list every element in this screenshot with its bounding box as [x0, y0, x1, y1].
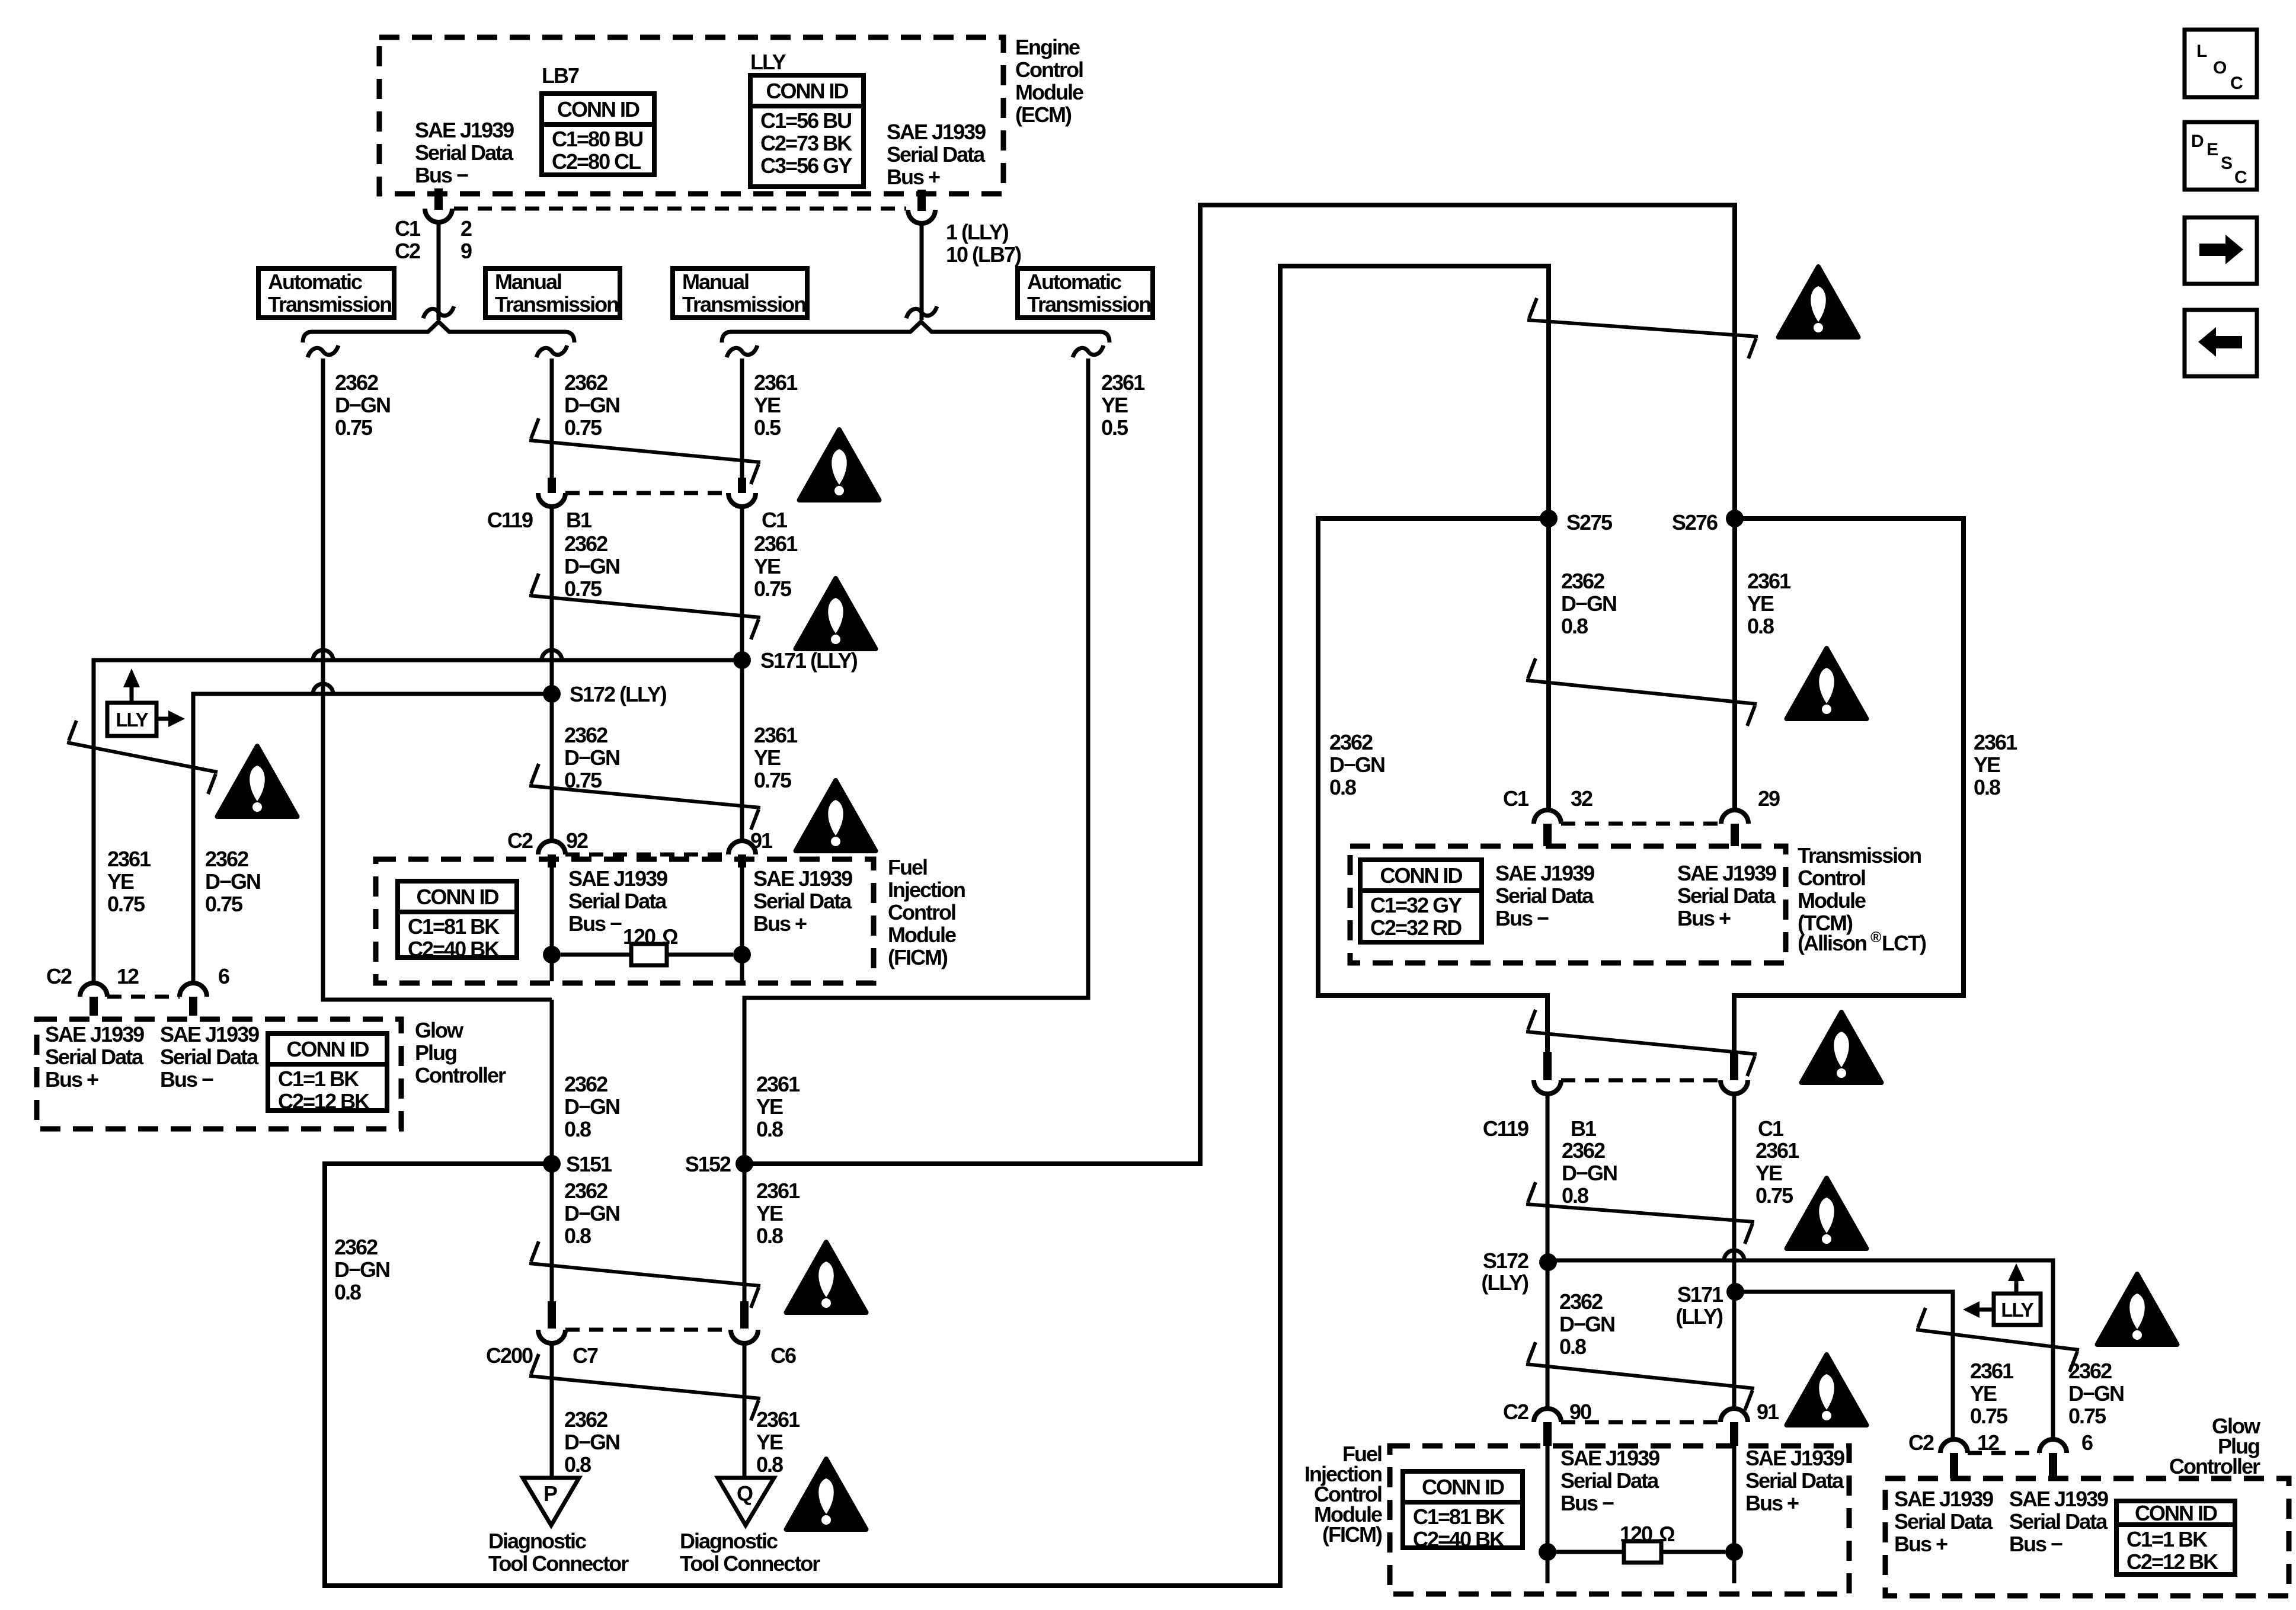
svg-text:C200: C200	[486, 1343, 533, 1368]
svg-text:C2=80 CL: C2=80 CL	[552, 149, 641, 174]
svg-text:YE: YE	[1970, 1381, 1997, 1406]
callout box Automatic Transmission right	[1018, 268, 1153, 318]
wire label 2361 YE 0.5 (auto)	[1101, 370, 1145, 440]
svg-text:Serial Data: Serial Data	[1677, 884, 1776, 908]
wire label 2361 YE 0.8 to Q	[756, 1407, 800, 1477]
wire label 2362 D-GN 0.8	[564, 1072, 619, 1141]
svg-text:0.8: 0.8	[1329, 775, 1356, 799]
svg-text:C2=12 BK: C2=12 BK	[278, 1089, 370, 1113]
svg-text:®: ®	[1870, 929, 1882, 946]
twisted pair symbol left	[67, 721, 218, 794]
svg-text:D−GN: D−GN	[334, 1257, 389, 1282]
label LLY	[750, 50, 786, 74]
connector C119/B1 cup	[538, 493, 565, 507]
svg-text:Serial Data: Serial Data	[1560, 1468, 1659, 1493]
wire label 2361 YE 0.8	[756, 1072, 800, 1141]
svg-text:Bus +: Bus +	[753, 911, 807, 936]
svg-text:Automatic: Automatic	[268, 270, 362, 294]
svg-text:(FICM): (FICM)	[888, 945, 948, 969]
svg-text:120: 120	[1620, 1522, 1652, 1546]
connector C119/B1 right cup	[1534, 1080, 1561, 1094]
glow plug connector face dashed	[107, 995, 180, 999]
warning triangle	[218, 746, 298, 817]
svg-text:Serial Data: Serial Data	[1745, 1468, 1844, 1493]
svg-text:C1=56 BU: C1=56 BU	[760, 108, 851, 133]
svg-text:2362: 2362	[1329, 730, 1373, 754]
splice S275	[1540, 510, 1613, 534]
svg-text:0.8: 0.8	[1562, 1183, 1588, 1208]
svg-text:2361: 2361	[754, 370, 798, 395]
wire option squiggle	[423, 306, 454, 318]
CONN ID table glow plug right	[2116, 1501, 2235, 1574]
splice S171 right	[1675, 1282, 1744, 1329]
svg-text:Bus −: Bus −	[2009, 1532, 2062, 1556]
wire ECM bus+ drop	[920, 223, 924, 320]
label C6	[770, 1343, 796, 1368]
wire label 2362 D-GN 0.75 mid	[564, 532, 619, 601]
svg-text:2361: 2361	[107, 847, 151, 871]
svg-text:0.8: 0.8	[564, 1117, 591, 1141]
splice dot right resistor	[733, 946, 751, 964]
svg-text:Bus −: Bus −	[160, 1067, 213, 1092]
svg-text:Bus +: Bus +	[1745, 1491, 1799, 1515]
svg-text:LB7: LB7	[542, 63, 579, 88]
wire S275 left branch	[1318, 518, 1549, 1052]
svg-text:2362: 2362	[1559, 1289, 1603, 1314]
warning triangle	[1787, 1355, 1867, 1425]
FICM left internal bus+ wire	[740, 868, 744, 981]
svg-text:C2: C2	[46, 964, 72, 988]
wire hop	[313, 684, 333, 694]
CONN ID table LLY	[750, 75, 864, 187]
splice S172	[543, 682, 667, 706]
fuel injection control module left dashed box	[376, 859, 874, 983]
twisted pair symbol above TCM	[1526, 658, 1757, 726]
connector C119 stub	[548, 478, 556, 493]
svg-text:Module: Module	[888, 923, 956, 947]
connector stub 6 right	[2049, 1453, 2057, 1478]
TCM pin label bus minus	[1495, 861, 1594, 930]
engine control module ECM dashed box	[379, 37, 1003, 194]
svg-text:Serial Data: Serial Data	[2009, 1509, 2108, 1534]
svg-text:2361: 2361	[754, 723, 798, 747]
wire label 2362 D-GN 0.8 to P	[564, 1407, 619, 1477]
FICM left pin label bus minus	[568, 866, 667, 936]
label C119	[487, 508, 533, 532]
svg-text:Serial Data: Serial Data	[1894, 1509, 1993, 1534]
off-page connector P triangle	[523, 1478, 579, 1525]
svg-text:S152: S152	[685, 1152, 731, 1176]
splice S276	[1672, 510, 1744, 534]
connector C1 right cup	[1721, 1080, 1748, 1094]
connector stub 91	[738, 854, 746, 868]
wire label 2362 D-GN 0.8 left loop	[1329, 730, 1384, 799]
svg-text:C1: C1	[1503, 786, 1529, 811]
connector C2-90 cup	[1534, 1409, 1561, 1422]
label 29	[1758, 786, 1780, 811]
warning triangle	[796, 780, 876, 851]
wire to P triangle	[550, 1343, 554, 1478]
svg-text:C2: C2	[1503, 1400, 1528, 1424]
svg-text:2361: 2361	[1747, 569, 1791, 593]
svg-text:(Allison: (Allison	[1798, 931, 1866, 955]
splice dot left resistor	[543, 946, 561, 964]
svg-text:(ECM): (ECM)	[1015, 103, 1072, 127]
label C1 right	[1758, 1116, 1784, 1141]
label C1 C2	[395, 216, 421, 263]
FICM right connector face dashed	[1561, 1420, 1721, 1425]
wire S171 right to glow plug	[1735, 1292, 1953, 1440]
label LB7	[542, 63, 579, 88]
GPC right name	[2169, 1414, 2261, 1478]
wire S171 branch to glow plug	[94, 660, 742, 984]
svg-text:YE: YE	[754, 745, 781, 770]
svg-text:CONN ID: CONN ID	[417, 885, 499, 909]
warning triangle	[800, 430, 880, 500]
svg-text:D−GN: D−GN	[205, 869, 260, 894]
label diagnostic tool connector Q	[680, 1529, 820, 1576]
svg-text:Bus −: Bus −	[1495, 906, 1549, 930]
FICM left name	[888, 855, 965, 969]
svg-text:D−GN: D−GN	[1559, 1312, 1614, 1336]
FICM right pin label bus plus	[1745, 1446, 1844, 1515]
wire 2362 manual mid	[550, 506, 554, 841]
svg-text:Module: Module	[1798, 888, 1866, 913]
transmission control module dashed box	[1350, 846, 1786, 963]
svg-text:0.75: 0.75	[754, 768, 792, 792]
svg-text:C1=1 BK: C1=1 BK	[278, 1067, 359, 1091]
svg-text:1 (LLY): 1 (LLY)	[946, 220, 1009, 244]
wire label 2361 YE 0.75 mid	[754, 532, 798, 601]
svg-text:Fuel: Fuel	[888, 855, 927, 879]
svg-text:C1=81 BK: C1=81 BK	[1413, 1505, 1505, 1529]
svg-text:Module: Module	[1015, 80, 1083, 104]
connector stub 90	[1543, 1422, 1552, 1446]
svg-text:S172: S172	[1483, 1249, 1528, 1273]
svg-text:CONN ID: CONN ID	[1422, 1475, 1504, 1499]
svg-text:0.8: 0.8	[756, 1224, 783, 1248]
wire squiggle auto-right	[1073, 345, 1104, 357]
svg-text:0.8: 0.8	[334, 1280, 361, 1304]
warning triangle	[786, 1242, 866, 1313]
warning triangle	[1787, 1178, 1867, 1249]
svg-text:2361: 2361	[1755, 1138, 1799, 1163]
svg-text:SAE J1939: SAE J1939	[2009, 1487, 2108, 1511]
svg-text:C2=73 BK: C2=73 BK	[760, 131, 852, 155]
legend box DESC	[2185, 122, 2257, 190]
svg-text:D−GN: D−GN	[564, 554, 619, 578]
svg-text:C1=81 BK: C1=81 BK	[408, 914, 500, 939]
svg-text:CONN ID: CONN ID	[2135, 1501, 2217, 1525]
FICM connector face dashed	[565, 853, 728, 857]
label C2	[507, 828, 533, 853]
connector 29 cup TCM	[1721, 810, 1748, 824]
svg-text:SAE J1939: SAE J1939	[160, 1022, 259, 1046]
label C200	[486, 1343, 533, 1368]
svg-text:C1: C1	[395, 216, 421, 241]
svg-text:C1: C1	[762, 508, 788, 532]
twisted pair symbol glow right	[1916, 1308, 2079, 1372]
svg-text:C2=40 BK: C2=40 BK	[1413, 1527, 1505, 1551]
svg-text:Diagnostic: Diagnostic	[680, 1529, 778, 1553]
wire ECM bus- drop	[437, 222, 441, 320]
svg-text:C119: C119	[1483, 1116, 1528, 1141]
svg-text:0.75: 0.75	[564, 415, 602, 440]
svg-text:Manual: Manual	[495, 270, 561, 294]
svg-text:2361: 2361	[754, 532, 798, 556]
svg-text:S: S	[2221, 153, 2232, 173]
svg-text:Transmission: Transmission	[268, 292, 391, 316]
svg-text:0.8: 0.8	[756, 1117, 783, 1141]
wire label 2361 YE 0.8 right loop	[1974, 730, 2017, 799]
svg-text:SAE J1939: SAE J1939	[45, 1022, 144, 1046]
wire manual bus- below FICM	[550, 1000, 554, 1301]
svg-text:Q: Q	[737, 1481, 753, 1506]
wire option squiggle	[906, 306, 937, 318]
label C7	[573, 1343, 598, 1368]
svg-text:C2=40 BK: C2=40 BK	[408, 937, 500, 961]
svg-text:S275: S275	[1566, 510, 1613, 534]
svg-text:C119: C119	[487, 508, 533, 532]
ECM pin label SAE J1939 Serial Data Bus plus	[887, 120, 986, 189]
svg-text:Injection: Injection	[888, 878, 965, 902]
svg-text:2362: 2362	[564, 532, 607, 556]
ECM connector face dashed line	[454, 207, 906, 211]
svg-text:0.75: 0.75	[564, 577, 602, 601]
wire squiggle manual-right	[727, 345, 757, 357]
svg-text:LCT): LCT)	[1882, 931, 1926, 955]
connector stub 6	[189, 997, 197, 1016]
svg-text:2362: 2362	[334, 1235, 378, 1259]
svg-text:SAE J1939: SAE J1939	[568, 866, 667, 891]
option brace left	[303, 322, 574, 343]
svg-text:L: L	[2196, 41, 2207, 61]
label 6	[218, 964, 229, 988]
svg-text:Bus +: Bus +	[1677, 906, 1731, 930]
svg-text:Transmission: Transmission	[1027, 292, 1150, 316]
glow plug controller left dashed box	[37, 1019, 401, 1129]
connector C2-12 cup	[80, 983, 107, 997]
svg-text:S151: S151	[566, 1152, 612, 1176]
svg-text:Bus −: Bus −	[1560, 1491, 1614, 1515]
svg-text:Control: Control	[888, 900, 955, 924]
connector 91 right cup	[1721, 1409, 1748, 1422]
twisted pair symbol top right	[1527, 298, 1758, 359]
svg-text:YE: YE	[754, 554, 781, 578]
legend box arrow right	[2185, 217, 2257, 284]
wire S172 right to glow plug	[1548, 1260, 2053, 1440]
svg-text:P: P	[543, 1481, 557, 1506]
svg-text:91: 91	[1757, 1400, 1779, 1424]
wire label 2362 D-GN 0.8 left rail	[334, 1235, 389, 1304]
svg-text:0.8: 0.8	[1561, 614, 1588, 638]
svg-text:S172 (LLY): S172 (LLY)	[570, 682, 667, 706]
svg-text:6: 6	[218, 964, 229, 988]
connector C1 cup	[728, 493, 756, 507]
connector stub 91 right	[1730, 1422, 1738, 1446]
svg-text:Engine: Engine	[1015, 35, 1080, 59]
svg-text:Control: Control	[1015, 57, 1083, 82]
svg-text:B1: B1	[566, 508, 592, 532]
svg-text:D−GN: D−GN	[1329, 753, 1384, 777]
svg-text:9: 9	[461, 239, 472, 263]
CONN ID table FICM left	[398, 881, 517, 961]
connector 91 cup	[728, 841, 756, 854]
GPC left pin label bus plus	[45, 1022, 144, 1092]
svg-text:2362: 2362	[564, 1072, 607, 1096]
warning triangle	[2097, 1274, 2177, 1345]
label B1	[566, 508, 592, 532]
CONN ID table glow plug left	[268, 1033, 387, 1113]
TCM connector face dashed	[1561, 822, 1721, 826]
wire S276 right branch	[1734, 518, 1964, 1052]
twisted pair symbol	[1526, 1182, 1754, 1244]
svg-text:C3=56 GY: C3=56 GY	[760, 153, 852, 178]
svg-text:CONN ID: CONN ID	[287, 1037, 369, 1061]
C200 connector face dashed	[565, 1328, 731, 1332]
label 91	[750, 828, 773, 853]
wire label 2362 D-GN 0.75 (manual)	[564, 370, 619, 440]
legend box arrow left	[2185, 310, 2257, 376]
twisted pair symbol	[529, 1241, 760, 1308]
label 12	[117, 964, 139, 988]
FICM left internal bus- wire	[550, 868, 554, 981]
connector C200/C7 cup	[538, 1330, 565, 1343]
svg-text:Serial Data: Serial Data	[415, 140, 514, 165]
label C1	[762, 508, 788, 532]
connector stub 12	[89, 997, 98, 1016]
svg-text:S171 (LLY): S171 (LLY)	[760, 648, 858, 673]
svg-text:Transmission: Transmission	[1798, 843, 1921, 868]
svg-text:Bus +: Bus +	[45, 1067, 98, 1092]
connector C2-12 right cup	[1940, 1439, 1968, 1453]
svg-text:YE: YE	[756, 1094, 783, 1119]
svg-text:SAE J1939: SAE J1939	[887, 120, 986, 144]
splice dot	[1539, 1543, 1556, 1561]
LLY callout box right	[1963, 1263, 2041, 1325]
wire 2362 auto branch	[323, 359, 552, 1000]
svg-text:D−GN: D−GN	[2068, 1381, 2124, 1406]
wire label 2361 YE 0.8 below S152	[756, 1179, 800, 1248]
wire label 2361 YE 0.5 (manual)	[754, 370, 798, 440]
svg-text:SAE J1939: SAE J1939	[415, 118, 514, 142]
wire hop	[542, 650, 562, 660]
wire 2362 manual branch upper	[550, 359, 554, 480]
svg-text:0.8: 0.8	[1559, 1334, 1586, 1359]
ECM pin label SAE J1939 Serial Data Bus minus	[415, 118, 514, 187]
connector stub 92	[548, 854, 556, 868]
resistor 120 ohm left	[561, 924, 733, 965]
svg-text:32: 32	[1571, 786, 1593, 811]
wire label 2361 YE 0.75 low	[754, 723, 798, 792]
svg-text:D−GN: D−GN	[564, 745, 619, 770]
TCM name label	[1798, 843, 1926, 955]
svg-text:C2=12 BK: C2=12 BK	[2126, 1550, 2218, 1574]
label C2	[46, 964, 72, 988]
svg-text:(FICM): (FICM)	[1322, 1522, 1382, 1547]
legend box LOC	[2185, 30, 2257, 97]
svg-text:0.8: 0.8	[564, 1452, 591, 1477]
svg-text:Serial Data: Serial Data	[1495, 884, 1594, 908]
svg-text:0.75: 0.75	[1970, 1404, 2008, 1428]
wire label 2362 D-GN 0.75 (auto)	[335, 370, 390, 440]
FICM right name	[1304, 1442, 1382, 1547]
twisted pair symbol	[1526, 1342, 1754, 1410]
label 91 right	[1757, 1400, 1779, 1424]
svg-text:O: O	[2213, 58, 2227, 78]
svg-text:Bus +: Bus +	[1894, 1532, 1948, 1556]
svg-text:Plug: Plug	[415, 1041, 456, 1065]
ECM module name label	[1015, 35, 1083, 127]
wire bus- big loop	[325, 266, 1549, 1586]
svg-text:Transmission: Transmission	[495, 292, 618, 316]
GPC right pin label bus minus	[2009, 1487, 2108, 1556]
connector 6 cup	[180, 983, 207, 997]
wire to Q triangle	[743, 1343, 747, 1478]
svg-text:YE: YE	[756, 1201, 783, 1225]
wire label 2361 YE 0.75 glow	[107, 847, 151, 916]
svg-text:2362: 2362	[335, 370, 378, 395]
svg-text:E: E	[2207, 140, 2218, 159]
option brace right	[722, 322, 1109, 343]
svg-text:YE: YE	[1974, 753, 2000, 777]
glow plug controller left name	[415, 1018, 506, 1087]
CONN ID table LB7	[542, 94, 654, 175]
svg-text:YE: YE	[1747, 591, 1774, 616]
svg-text:Serial Data: Serial Data	[568, 889, 667, 913]
svg-text:0.8: 0.8	[1974, 775, 2000, 799]
svg-text:0.5: 0.5	[1101, 415, 1128, 440]
glow plug controller right dashed box	[1885, 1478, 2289, 1596]
splice S171	[733, 648, 858, 673]
callout box Manual Transmission left	[485, 268, 620, 318]
wire bus+ big loop	[744, 205, 1735, 1164]
connector C119 right stub	[1543, 1052, 1552, 1080]
svg-text:SAE J1939: SAE J1939	[1677, 861, 1776, 885]
svg-text:D−GN: D−GN	[564, 393, 619, 417]
svg-text:C1=32 GY: C1=32 GY	[1370, 893, 1462, 917]
wire bus+ below TCM	[1732, 1093, 1737, 1409]
splice S172 right	[1481, 1249, 1557, 1295]
connector C1 right stub	[1730, 1052, 1738, 1080]
svg-text:YE: YE	[1101, 393, 1128, 417]
svg-text:0.75: 0.75	[754, 577, 792, 601]
svg-text:C: C	[2234, 168, 2247, 187]
label 6 right	[2081, 1430, 2093, 1455]
twisted pair symbol	[529, 1354, 760, 1420]
svg-text:Serial Data: Serial Data	[753, 889, 852, 913]
svg-text:D−GN: D−GN	[564, 1430, 619, 1454]
svg-text:91: 91	[750, 828, 773, 853]
wire squiggle auto-left	[308, 345, 338, 357]
svg-text:LLY: LLY	[2001, 1299, 2033, 1321]
svg-text:Manual: Manual	[682, 270, 749, 294]
svg-text:Automatic: Automatic	[1027, 270, 1121, 294]
svg-text:C1: C1	[1758, 1116, 1784, 1141]
FICM right internal bus+ wire	[1732, 1446, 1737, 1583]
svg-text:D−GN: D−GN	[564, 1094, 619, 1119]
label pins 2 9	[461, 216, 472, 263]
label 92	[566, 828, 588, 853]
svg-text:C2: C2	[1908, 1430, 1934, 1455]
svg-text:120: 120	[623, 924, 655, 949]
GPC right pin label bus plus	[1894, 1487, 1993, 1556]
wire 2361 manual branch upper	[740, 359, 744, 480]
wire label 2361 YE 0.75 glow right	[1970, 1359, 2014, 1428]
svg-text:S171: S171	[1677, 1282, 1723, 1307]
svg-text:CONN ID: CONN ID	[557, 97, 639, 121]
connector 6 right cup	[2039, 1439, 2067, 1453]
